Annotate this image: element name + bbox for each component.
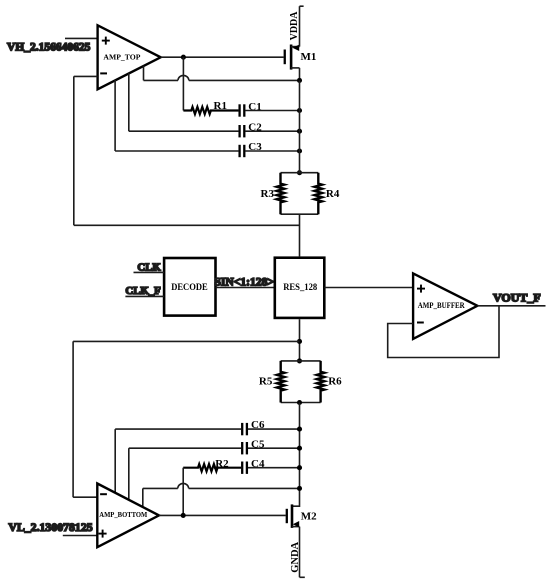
- node dot bus C2: [297, 129, 302, 134]
- svg-text:VH_2.156640625: VH_2.156640625: [7, 41, 91, 53]
- wire CLK input: [134, 271, 165, 273]
- op-amp AMP_BUFFER: [413, 273, 477, 339]
- wire AMP_BUFFER feedback: [388, 306, 499, 358]
- wire C3 to bus: [245, 150, 299, 152]
- wire AMP_BOTTOM output to M2 gate: [159, 514, 286, 516]
- resistor R1: [183, 107, 238, 114]
- op-amp AMP_TOP: [98, 25, 161, 89]
- wire C2 row from AMP_TOP bottom edge: [128, 73, 130, 131]
- resistor network R3 R4: [261, 173, 340, 215]
- wire VH to AMP_TOP + input: [65, 37, 98, 39]
- wire AMP_BOTTOM - input stub: [73, 496, 97, 498]
- capacitor C3: [240, 145, 245, 157]
- node dot bus C6: [297, 427, 302, 432]
- svg-text:CLK_F: CLK_F: [125, 285, 161, 297]
- wire C1 to bus: [245, 110, 299, 112]
- svg-text:AMP_BOTTOM: AMP_BOTTOM: [99, 510, 147, 519]
- capacitor C1: [240, 104, 245, 116]
- transistor M1: [285, 45, 317, 81]
- wire row1 from AMP_TOP bottom edge: [143, 66, 145, 81]
- wire AMP_TOP output to M1 gate: [161, 56, 284, 58]
- wire C6 to bus: [248, 428, 300, 430]
- svg-text:RES_128: RES_128: [283, 282, 317, 292]
- resistor network R5 R6: [259, 358, 342, 405]
- transistor M2: [287, 504, 317, 528]
- capacitor C5: [242, 442, 247, 454]
- wire feedback vertical from AMP_BOTTOM output node to R2 row: [182, 468, 184, 516]
- wire R3R4 to RES_128: [299, 214, 301, 256]
- node dot bus row1: [297, 78, 302, 83]
- svg-text:R2: R2: [215, 458, 229, 470]
- svg-text:GNDA: GNDA: [290, 541, 301, 572]
- node dot bus row 488: [297, 486, 302, 491]
- wire row 488 from AMP_BOTTOM top edge: [142, 488, 144, 507]
- wire left feedback vertical (top): [73, 76, 75, 225]
- wire hop over feedback line: [178, 75, 189, 80]
- wire bus M1 to R3R4: [299, 80, 301, 172]
- svg-text:VDDA: VDDA: [289, 11, 300, 41]
- svg-text:AMP_TOP: AMP_TOP: [103, 52, 140, 61]
- svg-text:DECODE: DECODE: [171, 282, 208, 292]
- node dot top of R3R4: [297, 170, 302, 175]
- wire RES_128 to AMP_BUFFER +: [324, 287, 413, 289]
- svg-text:M2: M2: [301, 510, 317, 522]
- op-amp AMP_BOTTOM: [97, 484, 159, 548]
- wire AMP_BUFFER output VOUT_F: [477, 305, 545, 307]
- wire AMP_TOP - input stub: [74, 75, 98, 77]
- node junction on AMP_TOP output: [181, 55, 186, 60]
- svg-text:R3: R3: [261, 188, 275, 200]
- svg-text:VL_2.130078125: VL_2.130078125: [8, 520, 92, 534]
- wire C4 to bus: [248, 467, 300, 469]
- svg-text:M1: M1: [301, 51, 317, 63]
- node junction on AMP_BOTTOM output: [181, 513, 186, 518]
- wire C5 row from AMP_BOTTOM top edge: [128, 448, 130, 500]
- svg-text:R4: R4: [326, 188, 340, 200]
- capacitor C4: [242, 462, 247, 474]
- wire C3 row from AMP_TOP bottom edge: [114, 80, 116, 151]
- wire C5 to bus: [248, 447, 300, 449]
- wire C2 to bus: [245, 130, 299, 132]
- wire VL to AMP_BOTTOM + input: [63, 535, 98, 537]
- wire CLK_F input: [125, 295, 164, 297]
- wire feedback vertical from output node to R1 row: [182, 57, 184, 110]
- node dot bus C3: [297, 148, 302, 153]
- svg-text:R1: R1: [214, 100, 227, 112]
- wire DECODE to RES_128: [216, 287, 275, 289]
- ground GNDA: [290, 527, 305, 578]
- block RES_128: [275, 258, 325, 318]
- capacitor C2: [240, 125, 245, 137]
- node dot bottom feedback: [297, 339, 302, 344]
- svg-text:AMP_BUFFER: AMP_BUFFER: [418, 300, 466, 310]
- wire bottom feedback row: [73, 340, 299, 342]
- svg-text:R5: R5: [259, 376, 273, 388]
- power VDDA: [289, 6, 304, 46]
- node dot bus C1: [297, 108, 302, 113]
- resistor R2: [183, 464, 241, 471]
- wire RES_128 bottom to R5R6: [299, 319, 301, 361]
- svg-text:VOUT_F: VOUT_F: [493, 291, 541, 305]
- wire top feedback row to node below R3R4: [74, 224, 300, 226]
- wire hop over bottom feedback line: [178, 483, 189, 488]
- wire C6 row from AMP_BOTTOM top edge: [114, 429, 116, 493]
- svg-text:R6: R6: [328, 376, 342, 388]
- capacitor C6: [242, 423, 247, 435]
- wire R5R6 to M2: [292, 403, 300, 507]
- node dot bus C5: [297, 446, 302, 451]
- node dot bus C4: [297, 465, 302, 470]
- block DECODE: [164, 258, 215, 316]
- wire left feedback vertical (bottom): [72, 341, 74, 497]
